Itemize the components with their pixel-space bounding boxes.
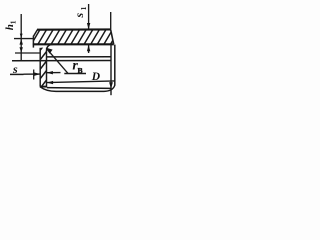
wire: band left edge bbox=[32, 36, 34, 48]
wire: band top edge bbox=[37, 28, 111, 30]
wire: s extension tick bbox=[33, 70, 35, 80]
wire: strip bottom edge bbox=[40, 86, 47, 88]
wire: upper middle line bbox=[46, 56, 110, 58]
wire: lower middle line (long) bbox=[12, 60, 111, 62]
wire: h1 dimension line bbox=[20, 14, 22, 61]
label rB with leader bbox=[46, 48, 68, 73]
svg-text:1: 1 bbox=[9, 20, 18, 24]
wire: right wall outer line bbox=[114, 45, 116, 86]
wire: s right counter arrow bbox=[47, 72, 61, 74]
wire: h1 up arrow bbox=[20, 39, 23, 45]
wire: h1 down arrow bbox=[20, 47, 23, 53]
label D with dimension line bbox=[47, 81, 115, 83]
svg-text:в: в bbox=[77, 65, 83, 76]
label h1 (rotated) bbox=[4, 20, 18, 30]
svg-text:D: D bbox=[91, 71, 101, 83]
wire: s1 dimension lower line with up arrow bbox=[88, 45, 90, 53]
wire: strip hatching bbox=[5, 44, 82, 96]
label s1 (rotated) bbox=[72, 6, 88, 18]
wire: h1 lower extension line bbox=[15, 52, 40, 54]
wire: band left chamfer bbox=[33, 30, 37, 37]
wire: band hatching bbox=[24, 29, 120, 46]
wire: right wall inner line with down arrow bbox=[110, 45, 112, 96]
wire: strip left edge bbox=[39, 48, 41, 87]
wire: s underline bbox=[10, 73, 24, 75]
wire: strip right edge with inner radius bbox=[47, 44, 54, 87]
wire: bottom lower curve bbox=[40, 85, 115, 91]
wire: h1 down arrow above upper line bbox=[20, 34, 23, 39]
wire: band bottom edge bbox=[33, 43, 114, 45]
wire: band right slant edge bbox=[111, 29, 114, 44]
wire: extension line above band right corner bbox=[110, 12, 112, 29]
wire: s1 dimension upper line with down arrow bbox=[88, 4, 90, 29]
wire: bottom upper line bbox=[47, 87, 111, 90]
wire: s arrow line to strip bbox=[24, 73, 41, 75]
svg-text:s: s bbox=[72, 13, 86, 19]
wire: h1 upper extension line bbox=[14, 38, 33, 40]
svg-text:1: 1 bbox=[79, 6, 88, 10]
